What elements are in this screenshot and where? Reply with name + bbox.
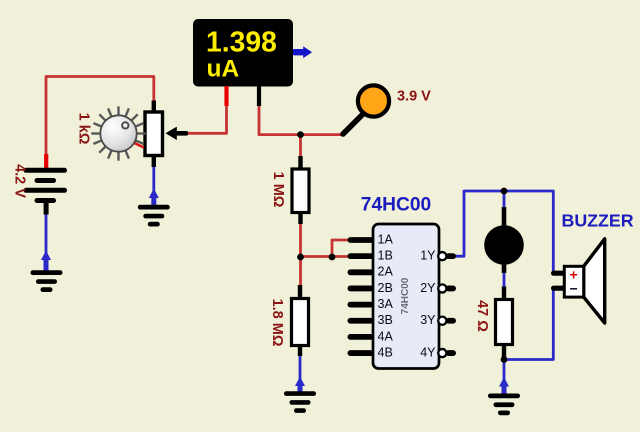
svg-text:2B: 2B xyxy=(378,281,393,295)
svg-text:4A: 4A xyxy=(378,329,394,343)
svg-text:74HC00: 74HC00 xyxy=(400,277,411,314)
svg-text:4Y: 4Y xyxy=(420,345,436,359)
wire node E down to lamp xyxy=(503,191,506,209)
ammeter black lead xyxy=(257,86,261,106)
svg-text:1A: 1A xyxy=(378,232,394,246)
voltage probe xyxy=(343,85,389,134)
junction node B xyxy=(297,254,304,261)
svg-text:74HC00: 74HC00 xyxy=(361,195,431,216)
ammeter output arrow xyxy=(293,46,312,58)
potentiometer red wiper link xyxy=(130,141,144,148)
ground (R 47) xyxy=(488,394,520,416)
svg-text:1 kΩ: 1 kΩ xyxy=(76,113,92,145)
wire R 47 to node D xyxy=(503,345,506,360)
svg-text:1.398: 1.398 xyxy=(206,25,277,57)
wire R 1M bottom to node B xyxy=(299,214,302,257)
ammeter red lead xyxy=(224,86,228,106)
wire IC 1Y to lamp top (blue net) xyxy=(456,191,554,271)
buzzer LS1 xyxy=(551,239,605,323)
svg-text:4.2 V: 4.2 V xyxy=(12,164,28,198)
junction node A xyxy=(297,131,304,138)
wire node B down to R 1.8M xyxy=(299,257,302,289)
wire node C up to IC pin 1A xyxy=(332,240,350,257)
potentiometer VR1 body xyxy=(145,101,163,168)
lamp (unlit) xyxy=(484,207,524,273)
wire node B to IC pin 1B xyxy=(301,255,351,258)
svg-text:3.9 V: 3.9 V xyxy=(397,89,431,105)
svg-text:47 Ω: 47 Ω xyxy=(474,300,490,332)
wire battery+ to potentiometer top xyxy=(46,77,154,169)
svg-text:3A: 3A xyxy=(378,297,394,311)
IC right pin stubs with bubbles xyxy=(438,252,456,357)
resistor R3 47 xyxy=(496,287,513,358)
wire battery- to ground xyxy=(45,213,48,270)
IC pin labels xyxy=(378,232,437,359)
svg-text:2A: 2A xyxy=(378,265,394,279)
current arrow battery ground xyxy=(41,251,51,271)
IC U1 74HC00 xyxy=(373,224,439,369)
current arrow R 47 ground xyxy=(499,377,509,394)
wire lamp bottom to R 47 xyxy=(503,271,506,289)
wire R 1.8M bottom to ground xyxy=(299,355,302,392)
resistor R2 1.8M xyxy=(292,285,309,356)
wire buzzer minus to node D xyxy=(504,291,553,360)
svg-text:4B: 4B xyxy=(378,345,393,359)
svg-text:3Y: 3Y xyxy=(420,313,436,327)
wire ammeter black lead to node A xyxy=(259,104,301,135)
junction node D xyxy=(501,356,508,363)
current arrow R 1.8M ground xyxy=(295,377,305,393)
ammeter display xyxy=(193,19,293,87)
ground (battery) xyxy=(31,270,63,292)
resistor R1 1M xyxy=(292,156,309,224)
battery B1 4.2V xyxy=(24,154,68,215)
svg-text:1 MΩ: 1 MΩ xyxy=(270,172,286,208)
potentiometer wiper arrow xyxy=(166,127,189,140)
wire ammeter red lead to pot wiper xyxy=(187,104,227,133)
wire pot bottom to ground xyxy=(152,165,155,205)
wire node A down to R 1M xyxy=(299,135,302,158)
svg-text:1Y: 1Y xyxy=(420,249,436,263)
wire node A to voltage probe xyxy=(301,133,344,136)
current arrow pot ground xyxy=(149,189,159,206)
svg-text:uA: uA xyxy=(207,56,240,83)
junction node C xyxy=(329,254,336,261)
wire node D to ground xyxy=(503,360,506,395)
IC left pin stubs xyxy=(348,237,374,356)
svg-text:−: − xyxy=(570,281,578,297)
svg-text:3B: 3B xyxy=(378,313,393,327)
svg-text:1.8 MΩ: 1.8 MΩ xyxy=(269,299,285,347)
potentiometer knob xyxy=(91,106,145,160)
ground (potentiometer) xyxy=(138,205,170,227)
svg-text:1B: 1B xyxy=(378,249,393,263)
junction node E xyxy=(501,188,508,195)
svg-text:2Y: 2Y xyxy=(420,281,436,295)
ground (R 1.8M) xyxy=(284,391,316,413)
svg-text:BUZZER: BUZZER xyxy=(562,211,634,231)
